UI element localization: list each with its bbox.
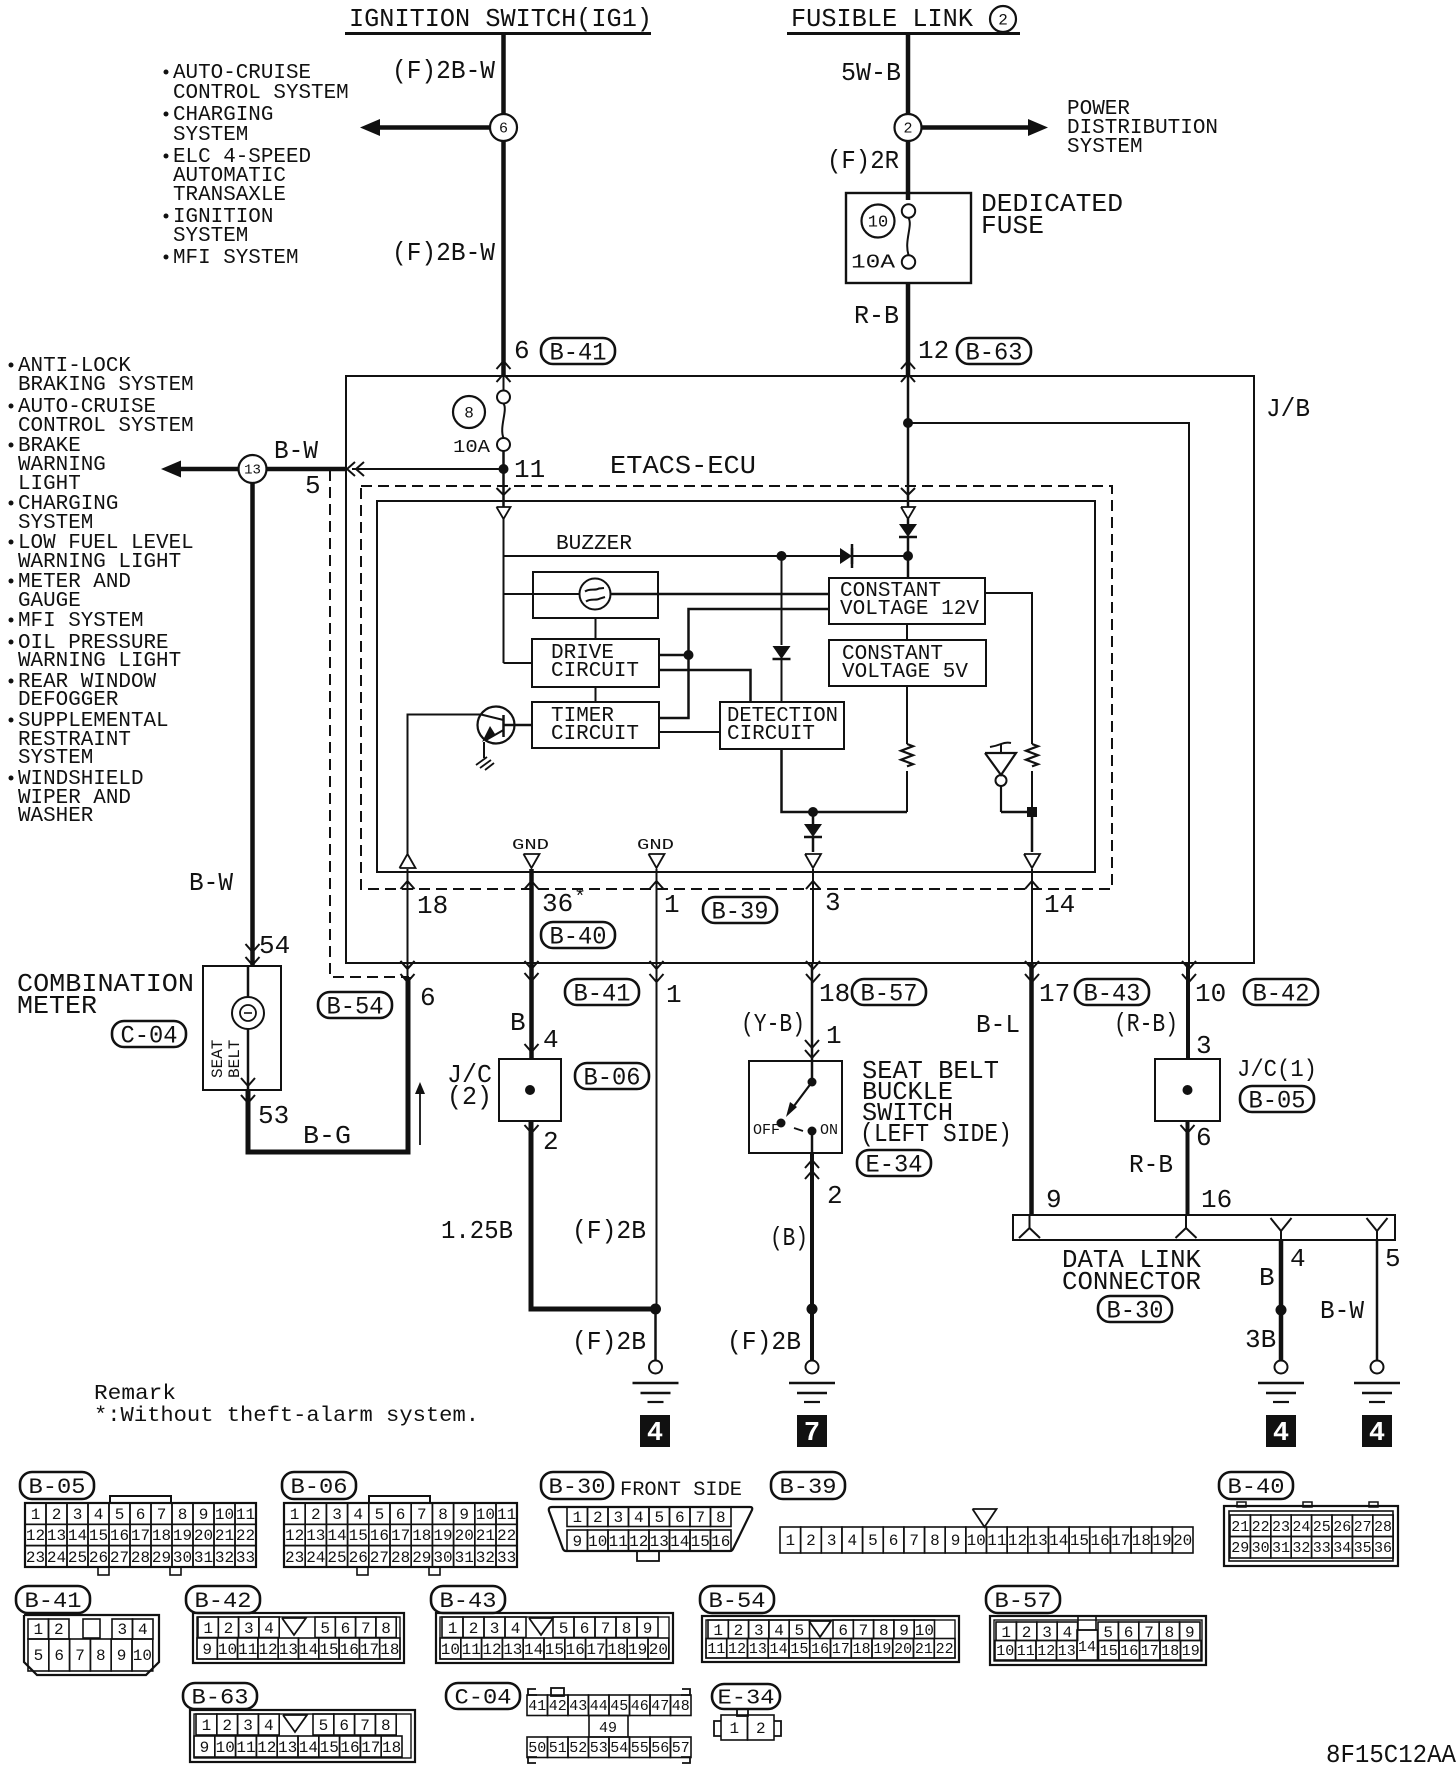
label 53 xyxy=(258,1101,289,1131)
svg-text:34: 34 xyxy=(1333,1540,1351,1557)
direction arrow xyxy=(415,1082,425,1145)
wire dlc4 down xyxy=(1279,1240,1284,1361)
svg-text:35: 35 xyxy=(1354,1540,1372,1557)
label F2B 3 xyxy=(727,1327,801,1357)
svg-text:9: 9 xyxy=(1185,1624,1195,1642)
svg-text:3: 3 xyxy=(243,1717,253,1735)
svg-text:VOLTAGE 5V: VOLTAGE 5V xyxy=(842,661,968,684)
svg-text:7: 7 xyxy=(859,1622,869,1640)
junction dlc xyxy=(1276,1305,1287,1316)
svg-text:45: 45 xyxy=(610,1698,628,1715)
svg-text:7: 7 xyxy=(695,1509,705,1527)
svg-text:11: 11 xyxy=(462,1641,481,1659)
svg-text:5: 5 xyxy=(654,1509,664,1527)
pin 12 B-63 label xyxy=(918,336,1031,367)
svg-text:13: 13 xyxy=(1029,1532,1048,1550)
svg-text:1.25B: 1.25B xyxy=(441,1216,513,1246)
svg-text:51: 51 xyxy=(549,1740,567,1757)
svg-text:6: 6 xyxy=(54,1647,64,1665)
wire jc2 down xyxy=(531,1121,656,1309)
ground dlc5 xyxy=(1354,1361,1400,1403)
svg-text:B-42: B-42 xyxy=(195,1589,252,1614)
svg-text:(R-B): (R-B) xyxy=(1114,1009,1178,1039)
sensor S1 xyxy=(985,743,1032,812)
svg-text:Remark: Remark xyxy=(94,1383,176,1406)
svg-text:(LEFT SIDE): (LEFT SIDE) xyxy=(860,1119,1012,1149)
crossing 17 B-43 xyxy=(1025,961,1149,1009)
svg-text:17: 17 xyxy=(832,1641,850,1658)
svg-text:5: 5 xyxy=(305,471,321,501)
ground marker 4a xyxy=(640,1415,670,1449)
svg-text:9: 9 xyxy=(199,1506,209,1524)
wire IG1 feed xyxy=(501,33,506,376)
svg-text:1: 1 xyxy=(666,980,682,1010)
svg-text:15: 15 xyxy=(691,1533,710,1551)
svg-text:B-42: B-42 xyxy=(1253,980,1310,1009)
svg-text:5: 5 xyxy=(375,1506,385,1524)
svg-text:10: 10 xyxy=(588,1533,607,1551)
label 2 jc2 xyxy=(525,1125,559,1157)
svg-text:SYSTEM: SYSTEM xyxy=(18,747,93,770)
svg-text:9: 9 xyxy=(200,1739,210,1757)
svg-text:OFF: OFF xyxy=(753,1122,780,1139)
node 11 xyxy=(499,455,546,485)
wire collector xyxy=(408,715,482,862)
svg-text:25: 25 xyxy=(1313,1519,1331,1536)
svg-text:5: 5 xyxy=(319,1717,329,1735)
svg-text:E-34: E-34 xyxy=(866,1151,923,1180)
wire fuse8 to node 11 xyxy=(502,451,505,507)
wire pin 53 B-G xyxy=(241,977,408,1152)
svg-text:8: 8 xyxy=(438,1506,448,1524)
connector B-39 xyxy=(780,1509,1193,1553)
label (F)2B-W upper xyxy=(392,56,495,86)
label F2B 1 xyxy=(572,1216,646,1246)
svg-text:12: 12 xyxy=(26,1527,45,1545)
svg-text:J/C(1): J/C(1) xyxy=(1237,1057,1317,1084)
svg-text:32: 32 xyxy=(476,1549,495,1567)
svg-text:5: 5 xyxy=(34,1647,44,1665)
connector B-30 label xyxy=(541,1472,613,1500)
svg-text:14: 14 xyxy=(1078,1639,1096,1656)
wire pin2 feed xyxy=(907,376,910,507)
connector B-30 xyxy=(549,1507,752,1561)
svg-text:B: B xyxy=(510,1008,526,1038)
svg-text:33: 33 xyxy=(497,1549,516,1567)
svg-text:4: 4 xyxy=(511,1620,521,1638)
svg-text:2: 2 xyxy=(1022,1624,1032,1642)
label seat belt vertical xyxy=(209,1040,244,1078)
svg-text:16: 16 xyxy=(811,1641,829,1658)
svg-text:16: 16 xyxy=(110,1527,129,1545)
connector B-63 xyxy=(190,1710,415,1762)
svg-text:23: 23 xyxy=(285,1549,304,1567)
svg-text:6: 6 xyxy=(838,1622,848,1640)
svg-text:11: 11 xyxy=(497,1506,516,1524)
svg-text:26: 26 xyxy=(1333,1519,1351,1536)
label 1.25B xyxy=(441,1216,513,1246)
svg-text:B-05: B-05 xyxy=(29,1475,86,1500)
svg-text:6: 6 xyxy=(580,1620,590,1638)
pin 2 triangle xyxy=(901,488,915,519)
connector crossing chevrons B-41 xyxy=(497,361,511,382)
svg-text:BRAKING SYSTEM: BRAKING SYSTEM xyxy=(18,374,194,397)
svg-text:7: 7 xyxy=(361,1620,371,1638)
svg-text:B-43: B-43 xyxy=(1084,980,1141,1009)
label seat belt switch xyxy=(860,1056,1012,1149)
svg-text:B-63: B-63 xyxy=(192,1686,249,1711)
svg-text:15: 15 xyxy=(319,1641,338,1659)
svg-text:4: 4 xyxy=(1273,1419,1289,1449)
label BUZZER xyxy=(556,533,632,556)
svg-text:17: 17 xyxy=(131,1527,150,1545)
pill B-06 xyxy=(575,1063,649,1093)
drive circuit box xyxy=(532,639,659,687)
svg-text:4: 4 xyxy=(264,1620,274,1638)
svg-text:18: 18 xyxy=(1132,1532,1151,1550)
svg-text:(Y-B): (Y-B) xyxy=(741,1009,805,1039)
pin 6 B-54 xyxy=(318,961,436,1022)
svg-text:2: 2 xyxy=(827,1181,843,1211)
resistor R2 xyxy=(1026,744,1038,766)
connector B-39 label xyxy=(771,1472,845,1500)
wire drive to timer xyxy=(595,687,597,702)
svg-text:1: 1 xyxy=(786,1532,796,1550)
svg-text:17: 17 xyxy=(391,1527,410,1545)
svg-text:4: 4 xyxy=(138,1621,148,1639)
svg-text:32: 32 xyxy=(215,1549,234,1567)
svg-text:15: 15 xyxy=(89,1527,108,1545)
svg-text:7: 7 xyxy=(75,1647,85,1665)
label B wire36 xyxy=(510,1008,526,1038)
svg-text:10: 10 xyxy=(441,1641,460,1659)
svg-text:14: 14 xyxy=(299,1739,318,1757)
svg-text:10: 10 xyxy=(915,1622,934,1640)
svg-text:14: 14 xyxy=(68,1527,87,1545)
svg-text:2: 2 xyxy=(806,1532,816,1550)
svg-text:16: 16 xyxy=(1201,1185,1232,1215)
svg-text:ETACS-ECU: ETACS-ECU xyxy=(610,451,756,481)
svg-text:12: 12 xyxy=(728,1641,746,1658)
svg-text:CIRCUIT: CIRCUIT xyxy=(551,723,639,746)
svg-text:BUZZER: BUZZER xyxy=(556,533,632,556)
svg-text:18: 18 xyxy=(819,979,850,1009)
svg-text:49: 49 xyxy=(599,1720,617,1737)
svg-text:8: 8 xyxy=(178,1506,188,1524)
svg-text:56: 56 xyxy=(651,1740,669,1757)
svg-text:19: 19 xyxy=(1182,1643,1200,1660)
svg-text:CIRCUIT: CIRCUIT xyxy=(727,723,815,746)
svg-text:B-41: B-41 xyxy=(550,339,607,368)
svg-text:9: 9 xyxy=(572,1533,582,1551)
svg-text:29: 29 xyxy=(152,1549,171,1567)
etacs inner box xyxy=(377,501,1095,872)
label B-G xyxy=(303,1121,351,1151)
svg-text:19: 19 xyxy=(173,1527,192,1545)
wire pin 10 jb xyxy=(903,418,1189,963)
svg-text:23: 23 xyxy=(1272,1519,1290,1536)
wire B-L down xyxy=(1029,963,1034,1215)
svg-text:16: 16 xyxy=(711,1533,730,1551)
svg-text:2: 2 xyxy=(543,1127,559,1157)
svg-text:2: 2 xyxy=(593,1509,603,1527)
svg-text:20: 20 xyxy=(894,1641,912,1658)
connector B-40 label xyxy=(1219,1472,1293,1500)
svg-text:9: 9 xyxy=(1046,1185,1062,1215)
pill B-41 bottom xyxy=(565,961,682,1010)
svg-text:11: 11 xyxy=(236,1506,255,1524)
svg-text:11: 11 xyxy=(707,1641,725,1658)
diode D3 xyxy=(804,812,822,852)
svg-text:25: 25 xyxy=(327,1549,346,1567)
svg-text:R-B: R-B xyxy=(1129,1150,1173,1180)
connector B-43 xyxy=(436,1613,673,1663)
svg-text:R-B: R-B xyxy=(854,301,899,331)
svg-text:22: 22 xyxy=(1252,1519,1270,1536)
svg-text:32: 32 xyxy=(1292,1540,1310,1557)
wire to constant voltage 12v xyxy=(689,609,830,655)
svg-text:18: 18 xyxy=(417,891,448,921)
svg-text:17: 17 xyxy=(1141,1643,1159,1660)
svg-text:2: 2 xyxy=(222,1717,232,1735)
svg-text:FUSE: FUSE xyxy=(981,211,1044,241)
svg-text:14: 14 xyxy=(327,1527,346,1545)
svg-text:B-41: B-41 xyxy=(574,980,631,1009)
svg-text:27: 27 xyxy=(110,1549,129,1567)
svg-text:28: 28 xyxy=(391,1549,410,1567)
wire branch to systems xyxy=(360,119,490,136)
svg-text:24: 24 xyxy=(1292,1519,1310,1536)
svg-text:10: 10 xyxy=(996,1643,1014,1660)
svg-text:13: 13 xyxy=(279,1641,298,1659)
buzzer box xyxy=(533,572,658,618)
svg-text:20: 20 xyxy=(194,1527,213,1545)
wire branch power distribution xyxy=(921,119,1048,136)
label (F)2B-W lower xyxy=(392,238,495,268)
svg-text:8: 8 xyxy=(381,1717,391,1735)
wire sensor down xyxy=(1031,812,1034,852)
svg-text:5: 5 xyxy=(868,1532,878,1550)
svg-text:6: 6 xyxy=(889,1532,899,1550)
svg-text:53: 53 xyxy=(258,1101,289,1131)
svg-text:(F)2B-W: (F)2B-W xyxy=(392,238,495,268)
label 36 xyxy=(542,887,586,919)
connector B-54 xyxy=(702,1616,959,1662)
svg-text:27: 27 xyxy=(1354,1519,1372,1536)
svg-text:B-G: B-G xyxy=(303,1121,351,1151)
svg-text:1: 1 xyxy=(572,1509,582,1527)
svg-text:10: 10 xyxy=(218,1641,237,1659)
label 4 xyxy=(543,1025,559,1055)
svg-text:18: 18 xyxy=(1161,1643,1179,1660)
connector E-34 label xyxy=(712,1684,780,1711)
svg-text:(F)2B: (F)2B xyxy=(572,1327,646,1357)
svg-text:B-39: B-39 xyxy=(780,1475,837,1500)
svg-text:18: 18 xyxy=(382,1739,401,1757)
label power distribution system xyxy=(1067,98,1218,159)
svg-text:8F15C12AA: 8F15C12AA xyxy=(1326,1740,1456,1770)
svg-text:18: 18 xyxy=(412,1527,431,1545)
gnd pin 36 xyxy=(512,837,549,868)
wire 5v down xyxy=(906,686,908,744)
connector B-54 label xyxy=(700,1586,774,1614)
svg-text:4: 4 xyxy=(634,1509,644,1527)
svg-text:14: 14 xyxy=(299,1641,318,1659)
svg-text:8: 8 xyxy=(622,1620,632,1638)
ground switch xyxy=(789,1361,835,1403)
svg-text:31: 31 xyxy=(194,1549,213,1567)
svg-text:5: 5 xyxy=(320,1620,330,1638)
svg-text:SYSTEM: SYSTEM xyxy=(173,124,248,147)
svg-text:B-43: B-43 xyxy=(440,1589,497,1614)
svg-text:28: 28 xyxy=(1374,1519,1392,1536)
label R-B xyxy=(854,301,899,331)
junction buzzer feed xyxy=(777,551,787,561)
svg-text:B-54: B-54 xyxy=(709,1589,766,1614)
svg-text:12: 12 xyxy=(482,1641,501,1659)
svg-text:3: 3 xyxy=(117,1621,127,1639)
connector B-40 xyxy=(1224,1502,1398,1566)
svg-text:DEFOGGER: DEFOGGER xyxy=(18,689,119,712)
label 54 xyxy=(259,931,290,961)
svg-text:11: 11 xyxy=(236,1739,255,1757)
connector B-06 label xyxy=(282,1472,356,1500)
svg-text:1: 1 xyxy=(826,1021,842,1051)
svg-text:53: 53 xyxy=(590,1740,608,1757)
svg-text:1: 1 xyxy=(33,1621,43,1639)
svg-text:9: 9 xyxy=(951,1532,961,1550)
svg-text:13: 13 xyxy=(650,1533,669,1551)
label 16 xyxy=(1201,1185,1232,1215)
svg-text:1: 1 xyxy=(203,1620,213,1638)
wire jc1 down xyxy=(1186,1121,1190,1215)
wire switch down xyxy=(805,1153,843,1361)
svg-text:12: 12 xyxy=(1037,1643,1055,1660)
svg-text:6: 6 xyxy=(339,1717,349,1735)
svg-text:7: 7 xyxy=(804,1419,820,1449)
svg-text:WASHER: WASHER xyxy=(18,805,94,828)
svg-text:5: 5 xyxy=(115,1506,125,1524)
dlc pin 9 glyph xyxy=(1019,1215,1040,1238)
svg-text:31: 31 xyxy=(455,1549,474,1567)
transistor Q1 xyxy=(478,707,533,744)
svg-text:12: 12 xyxy=(285,1527,304,1545)
svg-text:11: 11 xyxy=(514,455,545,485)
svg-text:19: 19 xyxy=(433,1527,452,1545)
wire to switch xyxy=(805,963,819,1061)
switch SW1 xyxy=(753,1061,838,1153)
svg-text:18: 18 xyxy=(152,1527,171,1545)
junction block J/B xyxy=(346,376,1254,963)
svg-text:B-41: B-41 xyxy=(25,1589,82,1614)
svg-text:CONTROL SYSTEM: CONTROL SYSTEM xyxy=(173,82,349,105)
pin 3 triangle xyxy=(805,854,821,868)
connector crossing chevrons B-63 xyxy=(901,361,915,382)
svg-text:C-04: C-04 xyxy=(455,1686,512,1711)
crossing 10 B-42 xyxy=(1182,961,1318,1009)
connector B-43 label xyxy=(431,1586,505,1614)
svg-text:7: 7 xyxy=(360,1717,370,1735)
svg-text:2: 2 xyxy=(998,11,1008,29)
svg-text:52: 52 xyxy=(569,1740,587,1757)
svg-text:25: 25 xyxy=(68,1549,87,1567)
svg-text:6: 6 xyxy=(136,1506,146,1524)
svg-text:28: 28 xyxy=(131,1549,150,1567)
svg-text:5W-B: 5W-B xyxy=(841,58,901,88)
data link connector box xyxy=(1013,1215,1395,1240)
splice 2 xyxy=(895,114,922,141)
svg-text:54: 54 xyxy=(610,1740,628,1757)
connector B-42 xyxy=(193,1613,404,1663)
fuse 10 xyxy=(851,204,915,273)
dlc pin 4 glyph xyxy=(1271,1218,1292,1240)
label 5W-B xyxy=(841,58,901,88)
svg-text:5: 5 xyxy=(1103,1624,1113,1642)
svg-text:9: 9 xyxy=(202,1641,212,1659)
svg-text:13: 13 xyxy=(47,1527,66,1545)
constant voltage 12v box xyxy=(829,578,985,624)
junction pin2 xyxy=(903,551,913,561)
svg-text:10: 10 xyxy=(967,1532,986,1550)
svg-text:6: 6 xyxy=(499,120,508,137)
svg-text:8: 8 xyxy=(1165,1624,1175,1642)
svg-text:2: 2 xyxy=(54,1621,64,1639)
svg-text:6: 6 xyxy=(1196,1123,1212,1153)
svg-text:E-34: E-34 xyxy=(718,1688,775,1711)
svg-text:11: 11 xyxy=(238,1641,257,1659)
label J/B xyxy=(1266,394,1310,424)
svg-text:22: 22 xyxy=(236,1527,255,1545)
timer circuit box xyxy=(532,702,659,748)
svg-text:2: 2 xyxy=(52,1506,62,1524)
svg-text:1: 1 xyxy=(713,1622,723,1640)
svg-text:2: 2 xyxy=(311,1506,321,1524)
label (F)2R xyxy=(827,146,899,176)
crossing 6 xyxy=(401,961,415,969)
svg-text:10: 10 xyxy=(215,1506,234,1524)
system list left xyxy=(9,355,194,828)
svg-text:12: 12 xyxy=(918,336,949,366)
svg-text:6: 6 xyxy=(420,983,436,1013)
svg-text:(F)2B: (F)2B xyxy=(572,1216,646,1246)
svg-text:1: 1 xyxy=(729,1720,739,1738)
svg-text:3: 3 xyxy=(754,1622,764,1640)
svg-text:WARNING LIGHT: WARNING LIGHT xyxy=(18,650,181,673)
splice 13 xyxy=(239,455,267,483)
svg-text:20: 20 xyxy=(455,1527,474,1545)
svg-text:24: 24 xyxy=(47,1549,66,1567)
ground marker 4b xyxy=(1266,1415,1296,1449)
svg-text:(F)2B: (F)2B xyxy=(727,1327,801,1357)
svg-text:17: 17 xyxy=(361,1739,380,1757)
wire pin 36 out xyxy=(525,869,539,1059)
svg-text:(B): (B) xyxy=(770,1223,808,1253)
svg-text:4: 4 xyxy=(1063,1624,1073,1642)
ground left xyxy=(633,1309,679,1402)
junction ground left xyxy=(650,1304,661,1315)
jc1 box xyxy=(1155,1059,1220,1121)
svg-text:TRANSAXLE: TRANSAXLE xyxy=(173,184,286,207)
svg-text:13: 13 xyxy=(306,1527,325,1545)
wire buzzer feed xyxy=(504,555,909,557)
wire to timer xyxy=(659,655,689,718)
svg-text:3: 3 xyxy=(613,1509,623,1527)
detection circuit box xyxy=(720,702,844,749)
wire fuse to JB xyxy=(906,283,911,376)
remark xyxy=(94,1383,479,1428)
dlc pin 16 glyph xyxy=(1176,1215,1197,1238)
connector B-41 label xyxy=(16,1586,90,1614)
